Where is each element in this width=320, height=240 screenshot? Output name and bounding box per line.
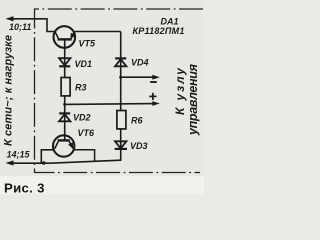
resistor R6 <box>117 111 126 129</box>
svg-text:Рис. 3: Рис. 3 <box>4 181 45 195</box>
junction node VD4/R6 <box>119 76 122 79</box>
diode VD1 <box>59 58 70 66</box>
svg-text:VT6: VT6 <box>78 128 96 138</box>
label - <box>150 81 157 83</box>
transistor VT6 <box>53 135 74 156</box>
diode VD4 <box>115 58 126 66</box>
svg-text:DA1: DA1 <box>161 17 179 27</box>
svg-text:VT5: VT5 <box>79 39 97 49</box>
svg-text:R6: R6 <box>131 116 143 126</box>
resistor R3 <box>61 78 70 96</box>
junction node R3/VD2 <box>63 103 66 106</box>
svg-text:10;11: 10;11 <box>9 22 31 32</box>
wire: control + line <box>65 103 154 106</box>
arrow to control unit (-) <box>152 75 160 80</box>
svg-text:К узлу: К узлу <box>173 67 187 115</box>
arrow to control unit (+) <box>152 101 160 106</box>
wire: top rail down to VD4 <box>120 32 122 111</box>
svg-text:К сети~; к нагрузке: К сети~; к нагрузке <box>3 35 15 146</box>
wire: bottom rail (pins 14;15, arrow to mains) <box>9 160 121 163</box>
svg-text:КР1182ПМ1: КР1182ПМ1 <box>133 26 185 36</box>
arrow to mains (left) <box>6 16 14 21</box>
wire: R3 to VD2 <box>64 96 66 140</box>
diode VD3 <box>115 141 127 149</box>
wire: VT6 collector to bottom rail <box>74 150 94 162</box>
wire: pins 10;11 to VT5 collector (left top, arrow to mains) <box>9 19 54 32</box>
svg-text:VD3: VD3 <box>130 141 148 151</box>
diode VD2 <box>59 113 70 121</box>
label + <box>149 93 156 100</box>
svg-text:VD2: VD2 <box>73 113 91 123</box>
wire: R6 to VD3 <box>120 129 122 161</box>
wire: VT5 to right branch top <box>75 31 121 33</box>
wire: VT6 emitter to bottom rail <box>41 150 53 163</box>
wire: control - line <box>121 76 154 78</box>
svg-text:VD1: VD1 <box>75 59 93 69</box>
svg-text:14;15: 14;15 <box>7 150 31 160</box>
svg-text:VD4: VD4 <box>131 58 149 68</box>
arrow to mains (bottom left) <box>6 160 14 165</box>
svg-text:управления: управления <box>186 63 200 136</box>
transistor VT5 <box>54 26 76 77</box>
svg-text:R3: R3 <box>75 83 87 93</box>
junction node bottom rail <box>42 161 46 165</box>
IC DA1 dash-dot boundary <box>35 9 204 173</box>
